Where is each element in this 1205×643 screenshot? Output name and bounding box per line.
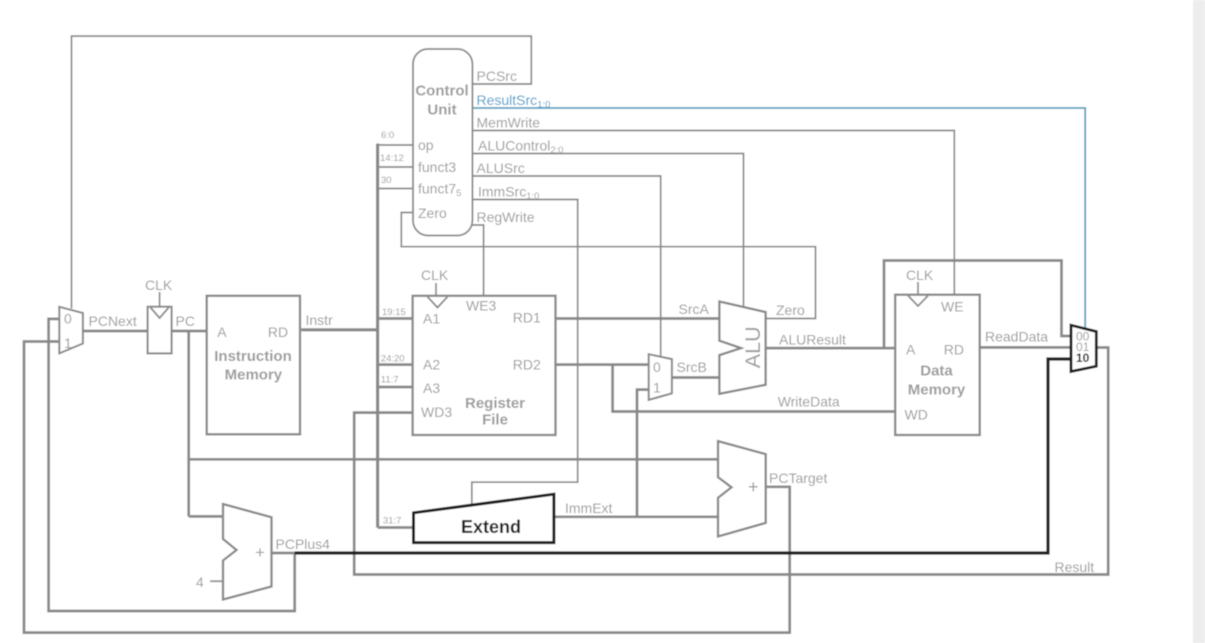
svg-text:op: op: [418, 137, 434, 153]
svg-text:+: +: [748, 477, 759, 497]
svg-text:RD: RD: [944, 342, 964, 358]
svg-text:CLK: CLK: [145, 277, 173, 293]
svg-text:Instruction: Instruction: [214, 348, 292, 365]
svg-text:ImmExt: ImmExt: [565, 500, 613, 516]
svg-text:A: A: [906, 342, 916, 358]
svg-text:A3: A3: [423, 380, 440, 396]
svg-text:24:20: 24:20: [381, 354, 405, 365]
svg-text:A2: A2: [423, 357, 440, 373]
svg-text:PCPlus4: PCPlus4: [276, 536, 331, 552]
svg-text:WD: WD: [905, 407, 928, 423]
svg-text:Memory: Memory: [225, 367, 283, 384]
svg-text:1: 1: [64, 335, 72, 351]
svg-text:Unit: Unit: [427, 102, 456, 119]
svg-text:19:15: 19:15: [382, 307, 406, 318]
svg-text:PC: PC: [176, 313, 195, 329]
svg-text:Result: Result: [1055, 559, 1095, 575]
svg-text:RegWrite: RegWrite: [477, 209, 535, 225]
svg-text:WriteData: WriteData: [778, 394, 840, 410]
svg-text:Instr: Instr: [306, 312, 334, 328]
svg-text:+: +: [255, 543, 265, 562]
svg-text:11:7: 11:7: [381, 375, 399, 386]
svg-text:RD1: RD1: [513, 310, 541, 326]
svg-text:Register: Register: [465, 395, 525, 412]
svg-text:WE: WE: [941, 299, 964, 315]
svg-text:Control: Control: [415, 83, 468, 100]
svg-text:Memory: Memory: [908, 382, 966, 399]
svg-text:PCSrc: PCSrc: [477, 68, 517, 84]
svg-text:4: 4: [196, 574, 204, 590]
svg-text:ALU: ALU: [741, 326, 765, 368]
svg-text:6:0: 6:0: [381, 130, 394, 141]
svg-text:31:7: 31:7: [383, 516, 402, 527]
svg-text:funct3: funct3: [418, 159, 456, 175]
svg-text:SrcB: SrcB: [677, 359, 707, 375]
svg-text:SrcA: SrcA: [679, 301, 710, 317]
svg-text:WE3: WE3: [466, 298, 497, 314]
svg-text:CLK: CLK: [906, 267, 934, 283]
svg-text:Zero: Zero: [418, 205, 447, 221]
svg-text:Zero: Zero: [776, 302, 805, 318]
svg-text:CLK: CLK: [421, 267, 449, 283]
svg-text:ALUResult: ALUResult: [779, 332, 846, 348]
svg-text:MemWrite: MemWrite: [477, 115, 541, 131]
svg-text:funct75: funct75: [418, 181, 461, 200]
svg-text:RD2: RD2: [513, 357, 541, 373]
svg-text:File: File: [482, 412, 508, 429]
svg-text:RD: RD: [268, 324, 288, 340]
svg-text:0: 0: [653, 359, 661, 375]
svg-text:ReadData: ReadData: [985, 329, 1048, 345]
svg-text:PCTarget: PCTarget: [769, 470, 827, 486]
svg-text:A1: A1: [423, 311, 440, 327]
svg-text:10: 10: [1076, 351, 1090, 365]
svg-text:A: A: [217, 324, 227, 340]
svg-text:30: 30: [381, 175, 392, 186]
svg-text:PCNext: PCNext: [89, 313, 137, 329]
svg-text:WD3: WD3: [421, 404, 452, 420]
svg-text:ALUSrc: ALUSrc: [477, 160, 525, 176]
svg-text:1: 1: [653, 380, 661, 396]
svg-text:Data: Data: [920, 363, 953, 380]
svg-text:14:12: 14:12: [380, 153, 404, 164]
svg-text:Extend: Extend: [461, 517, 521, 537]
svg-text:0: 0: [64, 311, 72, 327]
